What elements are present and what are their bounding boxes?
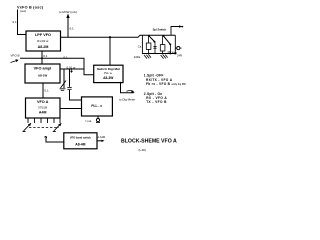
wire VFO B input to LPF bbox=[18, 10, 27, 35]
capacitor 0,01 label with arrow bbox=[67, 65, 77, 72]
svg-text:Spl Switch: Spl Switch bbox=[153, 28, 167, 32]
svg-text:A8-3W: A8-3W bbox=[103, 76, 114, 80]
capacitor coupling to PLL bbox=[67, 69, 81, 100]
svg-text:to Mr/W (mix): to Mr/W (mix) bbox=[59, 10, 77, 14]
resistor Ra bbox=[146, 35, 151, 54]
junction on long wire bbox=[109, 36, 111, 38]
svg-text:Rb.w: Rb.w bbox=[168, 50, 174, 54]
Spl sub-circuit frame left bbox=[142, 35, 176, 53]
svg-text:Fb rx - VFO B only by RX: Fb rx - VFO B only by RX bbox=[146, 82, 186, 86]
box Switch Digi Mal A8-3W bbox=[94, 65, 123, 82]
ground right bbox=[161, 55, 168, 59]
box VFO band switch A8-4M bbox=[64, 133, 97, 149]
switch arm 1 bbox=[148, 35, 156, 43]
tuning gang dashed link bbox=[29, 127, 59, 129]
svg-text:LPF VFO: LPF VFO bbox=[35, 33, 51, 37]
svg-text:A8-2M: A8-2M bbox=[38, 45, 49, 49]
svg-text:Ca: Ca bbox=[138, 44, 142, 48]
svg-text:24R: 24R bbox=[177, 54, 182, 58]
svg-text:VFO A: VFO A bbox=[37, 100, 49, 104]
svg-text:to Dig Meter: to Dig Meter bbox=[119, 98, 135, 102]
svg-text:A8-4M: A8-4M bbox=[75, 142, 85, 146]
wire Switch Digi to Dig Meter arrow bbox=[120, 82, 135, 93]
svg-text:0,1: 0,1 bbox=[43, 54, 48, 58]
varactor output circle bbox=[175, 47, 181, 50]
trimmer capacitor middle bbox=[153, 42, 156, 54]
svg-text:5T0/1M: 5T0/1M bbox=[38, 105, 47, 109]
svg-text:(osc): (osc) bbox=[20, 9, 26, 13]
wire drop to Switch Digi box bbox=[109, 37, 111, 65]
box LPF VFO A8-2M bbox=[26, 31, 61, 51]
svg-text:VFO B: VFO B bbox=[11, 54, 20, 58]
switch arm 2 bbox=[163, 35, 172, 45]
svg-text:0,1: 0,1 bbox=[13, 20, 18, 24]
wire right branch bbox=[169, 44, 171, 53]
svg-text:PLL - x: PLL - x bbox=[91, 104, 102, 108]
wire LPF output long horizontal bbox=[61, 35, 176, 37]
junction VFO B bus and ampl feed bbox=[41, 57, 43, 59]
node f out connector below PLL bbox=[86, 116, 101, 123]
svg-text:VFO band switch: VFO band switch bbox=[70, 136, 91, 140]
svg-text:BLOCK-SHEME VFO A: BLOCK-SHEME VFO A bbox=[121, 139, 177, 145]
box VFO ampl A8-1W bbox=[25, 64, 60, 83]
svg-text:VFO ampl: VFO ampl bbox=[34, 66, 52, 70]
wire top-right exit arrow bbox=[171, 25, 183, 35]
svg-text:0,1: 0,1 bbox=[45, 89, 50, 93]
tuning arrow left bbox=[23, 123, 32, 131]
svg-text:24Ra: 24Ra bbox=[134, 55, 141, 59]
svg-text:0,1: 0,1 bbox=[64, 56, 69, 60]
node VFO B input label bbox=[17, 5, 44, 13]
trimmer to ground at VFO ampl output bbox=[60, 69, 67, 90]
Spl sub-circuit right rail bbox=[174, 35, 176, 54]
wire VFO ampl to VFO A bbox=[42, 83, 44, 98]
ground left bbox=[144, 55, 151, 59]
box PLL bbox=[82, 97, 113, 116]
svg-text:R1,R2 w.: R1,R2 w. bbox=[37, 39, 49, 43]
VFO A tuning gang pins bbox=[28, 118, 60, 123]
svg-text:0,1: 0,1 bbox=[70, 27, 75, 31]
wire mech link to band switch bbox=[44, 136, 64, 142]
junction dots on bottom rail bbox=[148, 53, 171, 55]
wire VFO B bus to Switch Digi bbox=[20, 58, 94, 75]
resistor Rb bbox=[160, 35, 165, 54]
svg-text:f out: f out bbox=[86, 119, 92, 123]
box VFO A A4M bbox=[26, 98, 61, 118]
svg-text:TX - VFO B: TX - VFO B bbox=[146, 100, 167, 104]
svg-text:PLL w.: PLL w. bbox=[104, 71, 113, 75]
svg-text:RX/TX - VFO A: RX/TX - VFO A bbox=[146, 78, 173, 82]
svg-text:A8-1W: A8-1W bbox=[38, 73, 48, 77]
wire VFO A to PLL bbox=[60, 108, 82, 110]
node to Mr/W (mix) arrow bbox=[59, 10, 77, 37]
wire VFO ampl output stub bbox=[60, 68, 84, 70]
svg-text:to A4M: to A4M bbox=[97, 135, 105, 139]
wire LPF to VFO ampl bbox=[41, 51, 43, 64]
svg-text:A4M: A4M bbox=[39, 111, 47, 115]
wire band switch output arrow bbox=[97, 135, 105, 142]
svg-text:(LJR): (LJR) bbox=[139, 148, 146, 152]
tuning arrow right bbox=[53, 123, 62, 131]
node VFO B side label bbox=[11, 54, 20, 63]
